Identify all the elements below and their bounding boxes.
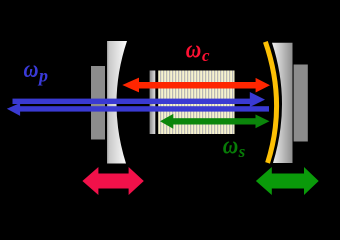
red beam wc right arrowhead — [256, 78, 270, 93]
left cavity mirror M1 (plano-concave substrate) — [107, 41, 127, 164]
green signal beam ws shaft — [172, 118, 257, 124]
piezo (left mirror actuator) — [91, 66, 105, 140]
blue pump beam wp right arrowhead — [250, 92, 265, 107]
nonlinear crystal outline — [148, 68, 237, 136]
green signal beam ws left arrowhead — [160, 114, 173, 129]
red double arrow (left mirror scan) — [82, 167, 143, 195]
crystal periodically-poled stripes — [158, 71, 234, 135]
right cavity mirror M2 (plano-concave substrate) — [272, 43, 293, 163]
svg-text:ω: ω — [223, 133, 239, 160]
red beam wc shaft — [137, 82, 257, 89]
yellow HR coating on right mirror — [265, 42, 276, 163]
red beam wc left arrowhead — [122, 78, 139, 93]
svg-text:p: p — [37, 66, 48, 86]
blue pump beam wp left arrowhead — [7, 103, 20, 116]
crystal input facet (gray) — [150, 71, 156, 135]
svg-text:c: c — [202, 46, 210, 65]
piezo (right mirror actuator) — [294, 65, 308, 142]
svg-text:ω: ω — [24, 57, 39, 83]
blue pump beam wp bottom line — [20, 106, 270, 111]
svg-text:ω: ω — [186, 36, 202, 63]
svg-text:s: s — [238, 142, 246, 161]
green double arrow (right mirror scan) — [256, 167, 319, 195]
blue pump beam wp top line — [13, 99, 251, 104]
green signal beam ws right arrowhead — [256, 115, 270, 129]
